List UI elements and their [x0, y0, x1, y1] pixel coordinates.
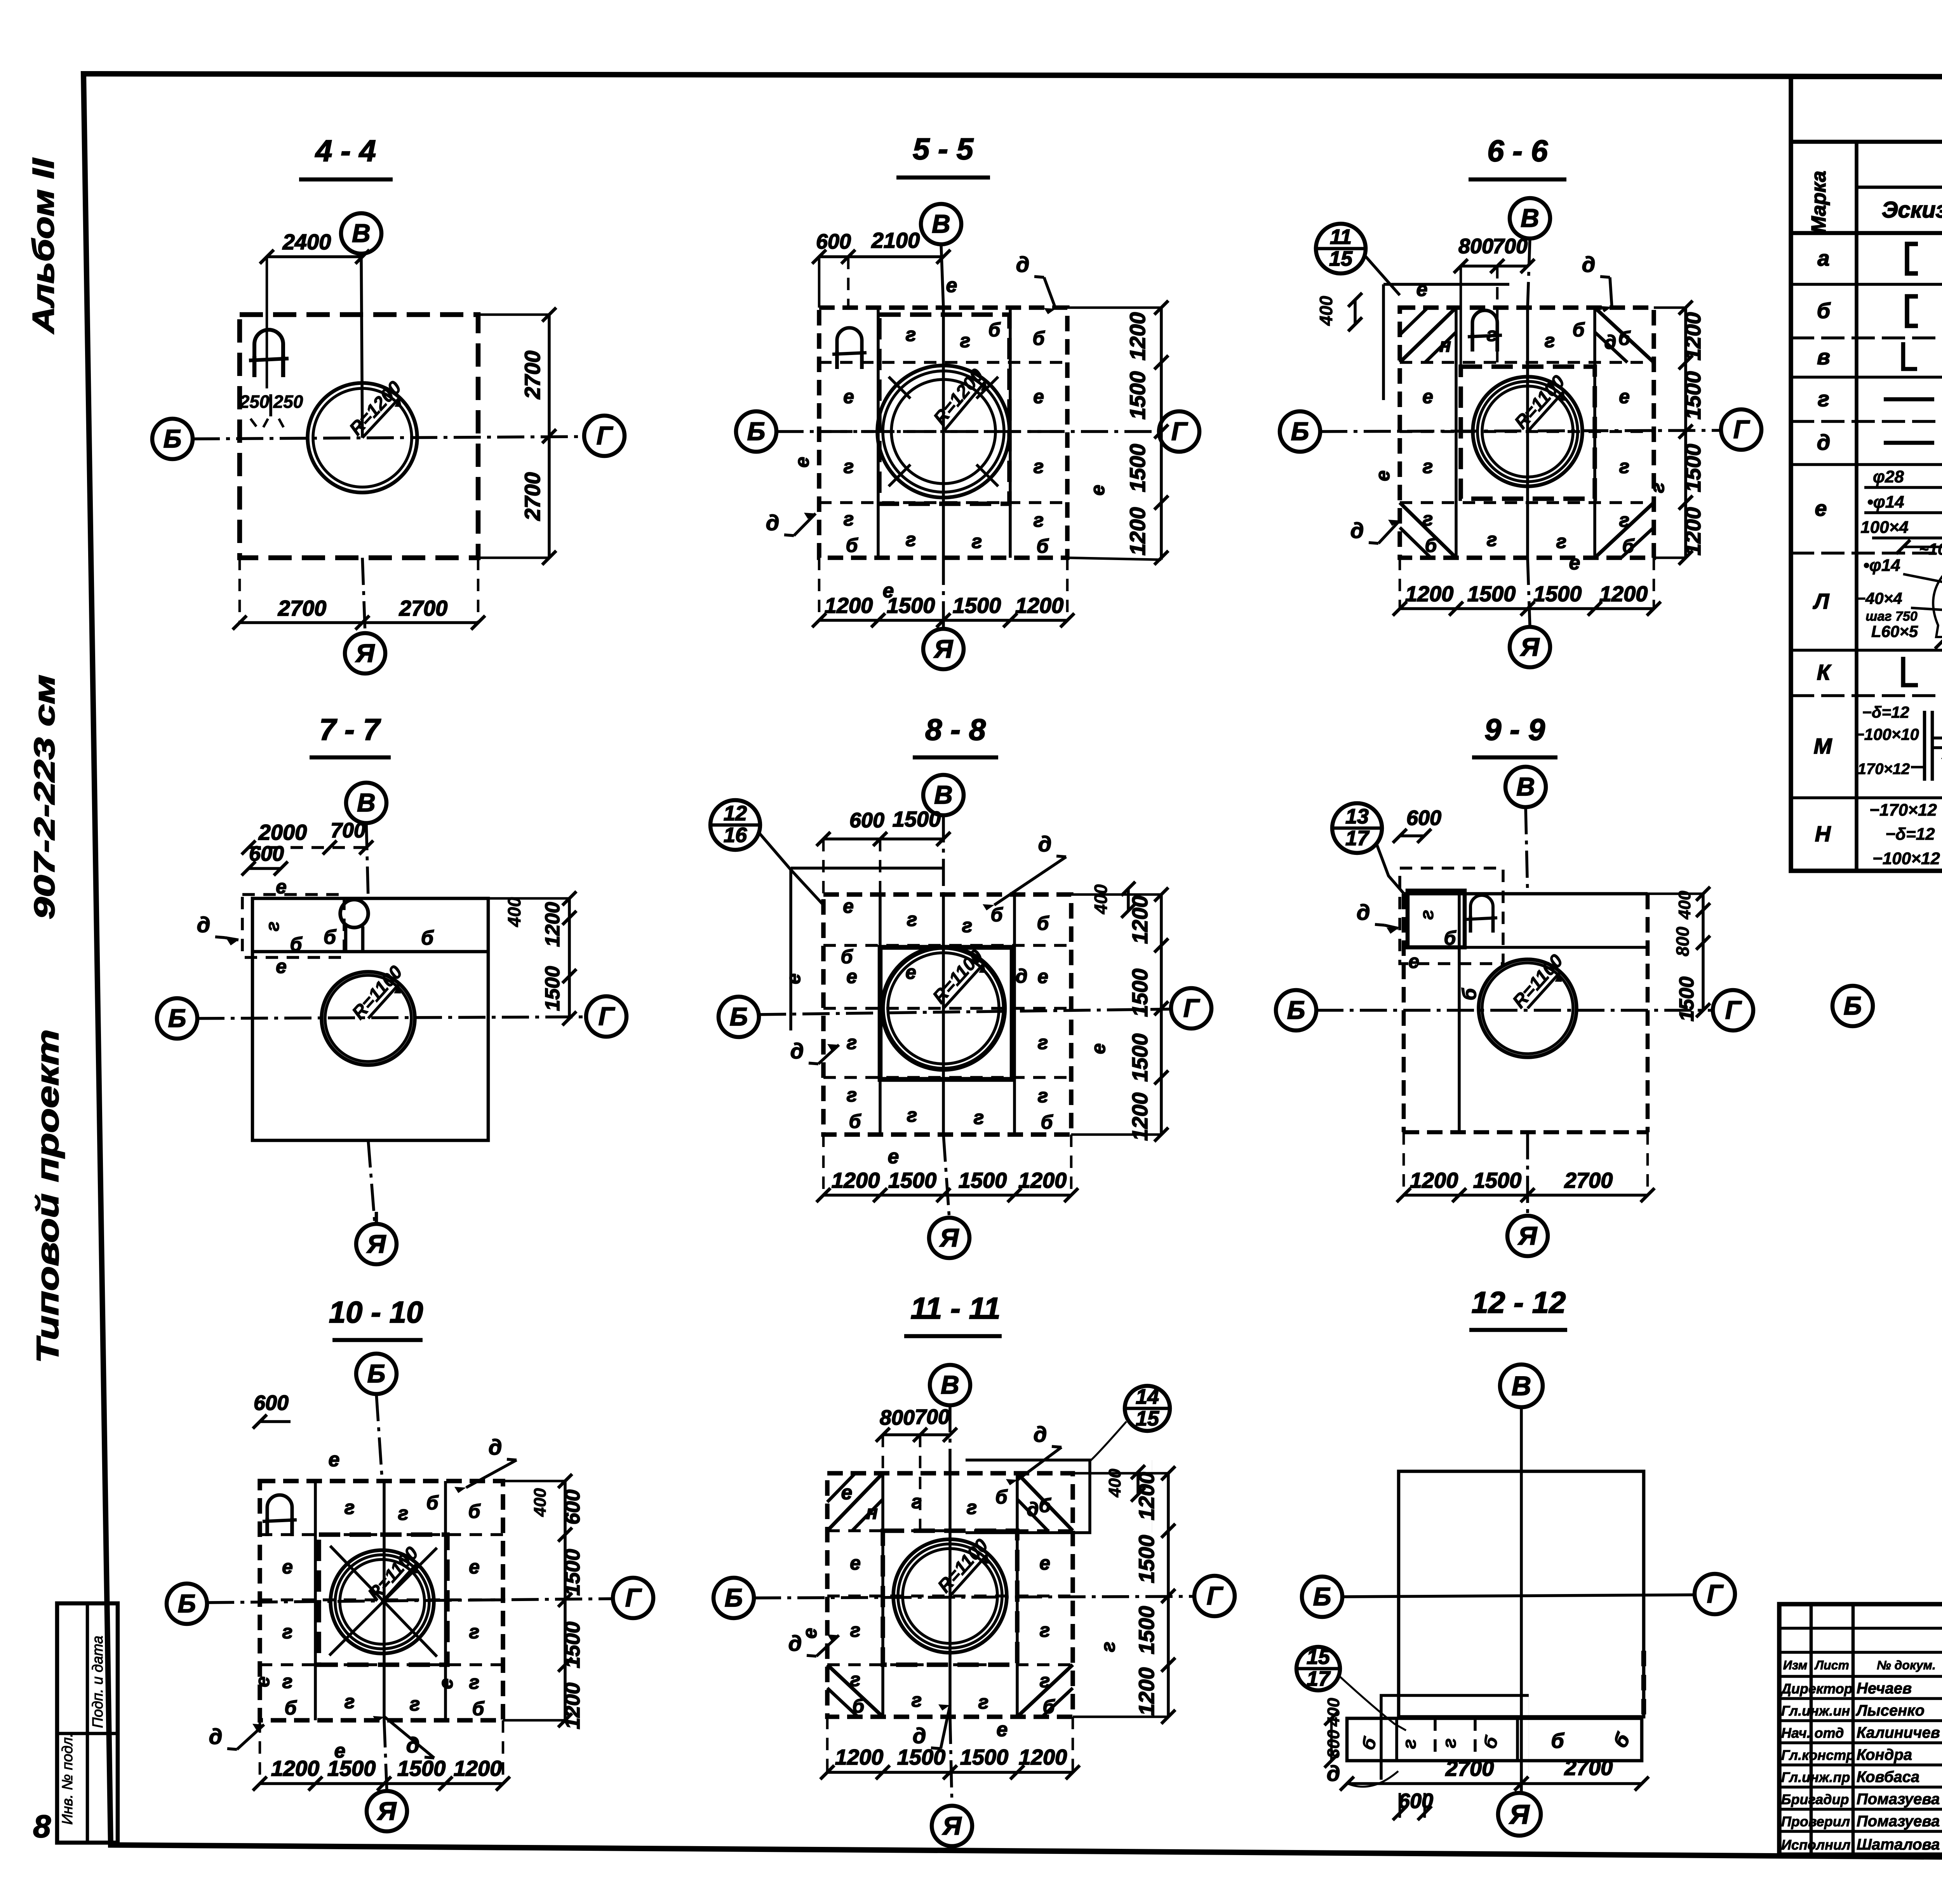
svg-text:2700: 2700 — [520, 472, 545, 521]
svg-text:2700: 2700 — [1564, 1755, 1613, 1780]
svg-text:−170×12: −170×12 — [1869, 801, 1937, 820]
svg-text:б: б — [285, 1697, 298, 1719]
svg-text:г: г — [978, 1691, 989, 1713]
svg-text:В: В — [934, 780, 953, 809]
svg-text:е: е — [1416, 278, 1428, 301]
svg-text:2700: 2700 — [520, 351, 545, 400]
svg-text:250: 250 — [273, 392, 303, 412]
svg-text:г: г — [1619, 509, 1630, 531]
svg-text:г: г — [1619, 456, 1630, 477]
svg-text:8: 8 — [33, 1809, 51, 1844]
svg-text:1200: 1200 — [561, 1683, 584, 1729]
svg-text:1200: 1200 — [1019, 1745, 1067, 1769]
svg-text:Я: Я — [933, 634, 954, 663]
svg-text:600: 600 — [849, 809, 884, 832]
svg-text:700: 700 — [915, 1405, 950, 1429]
svg-text:1500: 1500 — [561, 1622, 584, 1668]
svg-text:400: 400 — [1091, 884, 1111, 914]
svg-text:М: М — [1814, 734, 1832, 758]
svg-text:15: 15 — [1307, 1645, 1330, 1669]
svg-text:φ28: φ28 — [1873, 467, 1904, 486]
svg-text:−δ=12: −δ=12 — [1885, 825, 1935, 844]
svg-text:700: 700 — [1493, 235, 1528, 258]
svg-text:600: 600 — [1406, 806, 1441, 830]
svg-text:е: е — [1037, 966, 1048, 987]
svg-text:г: г — [345, 1691, 355, 1713]
svg-text:Я: Я — [1520, 632, 1540, 661]
svg-text:е: е — [1372, 470, 1394, 481]
svg-text:1200: 1200 — [271, 1756, 320, 1780]
svg-text:г: г — [1034, 456, 1044, 477]
svg-text:г: г — [906, 324, 916, 345]
svg-text:г: г — [1038, 1032, 1048, 1053]
svg-text:Г: Г — [1207, 1581, 1223, 1610]
svg-text:Н: Н — [1815, 821, 1831, 846]
svg-text:б: б — [1033, 327, 1046, 349]
svg-text:−100×10: −100×10 — [1855, 725, 1919, 743]
svg-text:400: 400 — [504, 897, 524, 927]
svg-text:17: 17 — [1345, 827, 1370, 850]
svg-text:Нач. отд: Нач. отд — [1781, 1725, 1844, 1741]
svg-text:г: г — [398, 1502, 409, 1524]
svg-text:1500: 1500 — [959, 1168, 1007, 1192]
svg-text:400: 400 — [1316, 296, 1336, 326]
svg-text:б: б — [1041, 1111, 1054, 1133]
svg-text:б: б — [1573, 319, 1585, 341]
svg-text:15: 15 — [1329, 247, 1353, 270]
svg-text:г: г — [469, 1671, 480, 1693]
svg-text:100×4: 100×4 — [1860, 518, 1909, 537]
svg-text:е: е — [843, 386, 854, 407]
svg-text:г: г — [1399, 1739, 1420, 1749]
svg-text:Лысенко: Лысенко — [1855, 1702, 1925, 1719]
svg-text:г: г — [906, 529, 916, 550]
svg-text:н: н — [866, 1502, 878, 1523]
svg-text:е: е — [329, 1448, 340, 1471]
svg-text:Лист: Лист — [1814, 1658, 1849, 1672]
svg-text:д: д — [1027, 1498, 1039, 1520]
svg-text:б: б — [1037, 912, 1050, 934]
svg-text:Б: Б — [1844, 991, 1862, 1020]
svg-text:г: г — [972, 531, 982, 552]
svg-text:г: г — [912, 1491, 922, 1512]
svg-text:е: е — [252, 1676, 273, 1687]
svg-text:е: е — [469, 1556, 480, 1578]
svg-text:L60×5: L60×5 — [1871, 622, 1918, 640]
svg-text:Г: Г — [1725, 996, 1742, 1024]
svg-text:г: г — [960, 330, 971, 352]
svg-text:Я: Я — [942, 1811, 962, 1840]
svg-text:д: д — [1817, 430, 1831, 454]
svg-text:1200: 1200 — [825, 593, 873, 618]
svg-text:К: К — [1817, 660, 1832, 684]
svg-text:1200: 1200 — [1128, 1093, 1152, 1141]
svg-text:Подп. и дата: Подп. и дата — [90, 1636, 106, 1728]
svg-text:г: г — [282, 1671, 293, 1692]
svg-text:б: б — [1444, 927, 1457, 949]
svg-text:Б: Б — [1287, 996, 1305, 1024]
svg-text:В: В — [932, 209, 950, 238]
svg-text:д: д — [913, 1723, 926, 1748]
svg-text:Я: Я — [366, 1229, 386, 1258]
svg-text:д: д — [209, 1724, 223, 1749]
svg-text:д: д — [1357, 900, 1370, 924]
svg-text:б: б — [1039, 1495, 1052, 1516]
svg-text:Марка: Марка — [1808, 171, 1830, 233]
svg-text:д: д — [489, 1435, 502, 1459]
svg-text:Бригадир: Бригадир — [1781, 1791, 1849, 1807]
svg-text:250: 250 — [239, 392, 270, 412]
svg-text:Ковбаса: Ковбаса — [1857, 1768, 1919, 1786]
svg-text:е: е — [888, 1145, 899, 1168]
svg-text:Помазуева: Помазуева — [1857, 1813, 1940, 1830]
svg-text:е: е — [783, 973, 804, 984]
svg-text:Шаталова: Шаталова — [1857, 1836, 1940, 1853]
svg-text:1200: 1200 — [1134, 1472, 1159, 1521]
svg-text:г: г — [844, 508, 854, 530]
svg-text:Б: Б — [164, 424, 182, 453]
svg-text:−100×12: −100×12 — [1872, 849, 1940, 868]
svg-text:Б: Б — [1313, 1582, 1331, 1611]
svg-text:г: г — [907, 1104, 917, 1126]
svg-text:9 - 9: 9 - 9 — [1484, 712, 1545, 747]
svg-text:б: б — [995, 1486, 1008, 1508]
svg-text:г: г — [1040, 1670, 1050, 1692]
svg-text:г: г — [962, 915, 973, 936]
svg-text:б: б — [1618, 327, 1631, 349]
svg-text:б: б — [849, 1110, 862, 1132]
svg-text:д: д — [1350, 518, 1364, 543]
svg-text:г: г — [345, 1497, 355, 1518]
svg-text:е: е — [843, 895, 854, 917]
svg-text:12 - 12: 12 - 12 — [1472, 1285, 1566, 1319]
svg-text:д: д — [1604, 331, 1617, 353]
svg-text:1200: 1200 — [1018, 1168, 1067, 1192]
svg-text:5 - 5: 5 - 5 — [913, 132, 974, 166]
svg-text:14: 14 — [1136, 1385, 1159, 1408]
svg-text:−δ=12: −δ=12 — [1862, 703, 1909, 721]
svg-text:г: г — [1040, 1619, 1050, 1641]
svg-text:2700: 2700 — [399, 596, 448, 620]
svg-text:е: е — [841, 1481, 853, 1504]
svg-text:г: г — [263, 921, 283, 931]
svg-text:б: б — [853, 1695, 865, 1717]
svg-text:д: д — [790, 1039, 804, 1063]
svg-text:15: 15 — [1136, 1407, 1159, 1430]
svg-text:е: е — [1087, 485, 1108, 496]
svg-text:1200: 1200 — [1125, 312, 1150, 361]
svg-text:е: е — [850, 1552, 861, 1574]
svg-text:Калиничев: Калиничев — [1857, 1724, 1940, 1741]
svg-text:Б: Б — [747, 417, 766, 446]
svg-text:1500: 1500 — [887, 593, 935, 618]
svg-text:б: б — [421, 927, 434, 949]
svg-text:н: н — [1439, 334, 1451, 356]
svg-text:б: б — [1817, 298, 1831, 323]
svg-text:№ докум.: № докум. — [1877, 1658, 1936, 1672]
svg-text:1500: 1500 — [888, 1168, 937, 1192]
svg-text:1500: 1500 — [1134, 1535, 1159, 1584]
svg-text:11: 11 — [1330, 225, 1352, 249]
svg-text:1500: 1500 — [1128, 969, 1152, 1017]
svg-text:1200: 1200 — [1681, 507, 1705, 556]
svg-text:1500: 1500 — [1473, 1168, 1522, 1192]
svg-text:2700: 2700 — [1445, 1756, 1494, 1780]
svg-text:Г: Г — [1707, 1579, 1724, 1608]
svg-text:г: г — [844, 456, 854, 477]
svg-text:б: б — [841, 946, 854, 968]
svg-text:а: а — [1817, 246, 1829, 270]
svg-text:е: е — [905, 961, 916, 983]
svg-text:800: 800 — [1672, 926, 1693, 956]
svg-text:в: в — [1817, 345, 1830, 369]
svg-text:е: е — [946, 274, 957, 297]
svg-text:б: б — [324, 926, 337, 949]
svg-text:1500: 1500 — [1676, 976, 1698, 1022]
svg-text:г: г — [1818, 386, 1829, 411]
svg-text:Кондра: Кондра — [1857, 1746, 1912, 1763]
svg-text:б: б — [846, 534, 859, 556]
svg-text:е: е — [1033, 386, 1044, 407]
svg-text:Б: Б — [730, 1002, 748, 1031]
svg-text:Б: Б — [168, 1004, 186, 1032]
svg-text:г: г — [974, 1107, 984, 1128]
svg-text:4 - 4: 4 - 4 — [315, 134, 376, 168]
svg-text:е: е — [846, 966, 857, 987]
svg-text:2100: 2100 — [871, 228, 920, 252]
svg-text:1500: 1500 — [953, 593, 1001, 618]
svg-text:−40×4: −40×4 — [1856, 589, 1902, 607]
svg-text:170×12: 170×12 — [1858, 761, 1910, 778]
svg-text:Проверил: Проверил — [1781, 1813, 1850, 1829]
svg-text:д: д — [1016, 965, 1028, 987]
svg-text:г: г — [282, 1621, 293, 1643]
svg-text:Инв. № подл.: Инв. № подл. — [59, 1733, 76, 1825]
svg-text:б: б — [1043, 1696, 1056, 1718]
svg-text:В: В — [941, 1370, 959, 1399]
svg-text:Б: Б — [178, 1589, 196, 1618]
svg-text:г: г — [850, 1669, 861, 1690]
svg-text:е: е — [997, 1718, 1008, 1741]
svg-text:1200: 1200 — [1128, 896, 1152, 944]
svg-text:б: б — [1425, 534, 1438, 556]
svg-text:Г: Г — [625, 1583, 642, 1612]
svg-text:е: е — [799, 1628, 821, 1639]
svg-text:7 - 7: 7 - 7 — [319, 712, 381, 747]
svg-text:Гл.констр: Гл.констр — [1781, 1747, 1855, 1763]
svg-text:6 - 6: 6 - 6 — [1487, 134, 1548, 168]
svg-text:г: г — [1545, 330, 1555, 352]
svg-text:е: е — [1088, 1043, 1109, 1054]
svg-text:Г: Г — [1733, 415, 1750, 444]
svg-text:700: 700 — [331, 819, 365, 842]
svg-text:е: е — [1422, 386, 1433, 407]
svg-text:1500: 1500 — [1134, 1606, 1159, 1655]
svg-text:б: б — [1037, 535, 1049, 557]
svg-text:8 - 8: 8 - 8 — [925, 712, 986, 747]
svg-text:г: г — [1556, 531, 1567, 552]
svg-text:е: е — [791, 457, 813, 468]
svg-text:13: 13 — [1345, 805, 1369, 828]
svg-text:г: г — [1423, 508, 1433, 530]
svg-text:г: г — [1417, 910, 1437, 920]
svg-text:1200: 1200 — [832, 1168, 880, 1192]
svg-text:г: г — [1487, 529, 1497, 550]
svg-text:Гл.инж.пр: Гл.инж.пр — [1781, 1769, 1850, 1785]
svg-text:д: д — [1327, 1761, 1340, 1786]
svg-text:1200: 1200 — [1015, 593, 1064, 618]
svg-text:400: 400 — [531, 1488, 550, 1517]
svg-text:600: 600 — [254, 1391, 289, 1415]
svg-text:1500: 1500 — [1125, 371, 1150, 420]
svg-text:г: г — [1423, 456, 1433, 477]
svg-text:2000: 2000 — [258, 820, 307, 844]
svg-text:Исполнил: Исполнил — [1781, 1837, 1850, 1853]
svg-text:Б: Б — [1291, 417, 1309, 446]
svg-text:д: д — [1016, 252, 1030, 277]
svg-text:г: г — [912, 1689, 922, 1711]
svg-text:Помазуева: Помазуева — [1857, 1791, 1940, 1808]
svg-text:1200: 1200 — [1410, 1168, 1458, 1192]
svg-text:1500: 1500 — [960, 1745, 1009, 1769]
svg-text:г: г — [1097, 1642, 1119, 1652]
svg-text:г: г — [1034, 509, 1044, 531]
svg-text:800: 800 — [1324, 1730, 1343, 1758]
svg-text:Г: Г — [599, 1002, 615, 1030]
svg-text:е: е — [1039, 1552, 1050, 1574]
svg-text:е: е — [1408, 950, 1419, 972]
svg-text:Альбом II: Альбом II — [26, 158, 60, 334]
svg-text:Б: Б — [367, 1359, 386, 1388]
svg-text:е: е — [435, 1678, 457, 1689]
svg-text:1500: 1500 — [893, 807, 941, 831]
svg-text:800: 800 — [1458, 235, 1493, 258]
svg-text:шаг 750: шаг 750 — [1865, 609, 1918, 624]
svg-text:~1000: ~1000 — [1919, 540, 1942, 558]
svg-text:Я: Я — [355, 639, 375, 667]
svg-text:Я: Я — [1517, 1221, 1538, 1250]
svg-text:д: д — [197, 912, 211, 937]
svg-text:1500: 1500 — [1128, 1034, 1152, 1082]
svg-text:17: 17 — [1307, 1667, 1331, 1690]
svg-text:б: б — [1622, 535, 1635, 557]
svg-text:11 - 11: 11 - 11 — [910, 1291, 1000, 1325]
svg-text:Б: Б — [725, 1583, 743, 1612]
svg-text:Изм: Изм — [1783, 1658, 1808, 1672]
svg-text:г: г — [1646, 483, 1668, 493]
svg-text:1500: 1500 — [397, 1756, 446, 1780]
svg-text:1200: 1200 — [1681, 312, 1705, 361]
svg-text:400: 400 — [1675, 891, 1694, 920]
svg-text:б: б — [991, 904, 1004, 926]
svg-text:б: б — [988, 319, 1001, 341]
svg-text:Директор: Директор — [1780, 1681, 1853, 1697]
svg-text:2700: 2700 — [1564, 1168, 1613, 1192]
svg-text:е: е — [1815, 496, 1827, 520]
svg-text:1200: 1200 — [454, 1756, 502, 1780]
svg-text:12: 12 — [724, 802, 747, 825]
svg-text:1500: 1500 — [1125, 444, 1150, 493]
svg-text:г: г — [907, 908, 917, 930]
svg-text:1200: 1200 — [1599, 581, 1648, 606]
svg-text:г: г — [1038, 1085, 1048, 1107]
svg-text:1200: 1200 — [541, 902, 564, 947]
svg-text:г: г — [469, 1621, 480, 1643]
svg-text:е: е — [1619, 386, 1630, 407]
svg-text:1200: 1200 — [1405, 581, 1454, 606]
svg-text:д: д — [1038, 832, 1052, 856]
svg-text:е: е — [276, 955, 287, 977]
svg-text:г: г — [847, 1032, 857, 1053]
svg-text:г: г — [1487, 324, 1497, 345]
svg-text:1500: 1500 — [1467, 581, 1516, 606]
svg-text:907-2-223 см: 907-2-223 см — [28, 675, 61, 919]
svg-text:1500: 1500 — [327, 1756, 376, 1780]
svg-text:Я: Я — [377, 1796, 397, 1825]
svg-text:Я: Я — [1509, 1799, 1530, 1829]
svg-text:1500: 1500 — [1681, 371, 1705, 420]
svg-text:Гл.инж.ин: Гл.инж.ин — [1781, 1703, 1850, 1719]
svg-text:600: 600 — [816, 230, 851, 253]
svg-text:1500: 1500 — [1681, 444, 1705, 493]
svg-text:Г: Г — [1171, 417, 1188, 446]
svg-text:600: 600 — [561, 1490, 584, 1525]
svg-text:2400: 2400 — [282, 230, 331, 254]
svg-text:В: В — [352, 219, 371, 247]
svg-text:г: г — [847, 1084, 857, 1106]
svg-text:2700: 2700 — [278, 596, 327, 620]
svg-text:г: г — [967, 1497, 977, 1518]
svg-text:Типовой проект: Типовой проект — [30, 1029, 65, 1363]
svg-text:д: д — [766, 510, 780, 535]
svg-text:•φ14: •φ14 — [1863, 556, 1900, 575]
svg-text:б: б — [1458, 987, 1480, 1000]
svg-text:Г: Г — [1183, 994, 1200, 1022]
svg-text:д: д — [1034, 1422, 1047, 1446]
svg-text:б: б — [426, 1492, 439, 1514]
svg-text:В: В — [1516, 772, 1535, 801]
svg-text:В: В — [357, 788, 376, 817]
svg-text:1200: 1200 — [835, 1745, 884, 1769]
svg-text:б: б — [472, 1698, 485, 1720]
svg-text:е: е — [282, 1556, 293, 1578]
svg-text:1500: 1500 — [561, 1549, 584, 1596]
svg-text:16: 16 — [724, 823, 747, 847]
svg-text:1500: 1500 — [897, 1745, 946, 1769]
svg-text:800: 800 — [880, 1406, 915, 1429]
svg-text:1200: 1200 — [1134, 1667, 1159, 1716]
svg-text:•φ14: •φ14 — [1867, 493, 1904, 512]
svg-text:1200: 1200 — [1125, 507, 1150, 556]
svg-text:е: е — [1569, 552, 1580, 574]
svg-text:д: д — [1582, 252, 1596, 277]
svg-text:б: б — [468, 1500, 481, 1522]
svg-text:Л: Л — [1813, 589, 1830, 613]
svg-text:б: б — [290, 933, 303, 955]
svg-text:б: б — [1551, 1729, 1564, 1753]
svg-text:Я: Я — [939, 1223, 959, 1252]
svg-text:г: г — [410, 1693, 420, 1715]
svg-text:1500: 1500 — [1533, 581, 1582, 606]
svg-text:д: д — [788, 1631, 802, 1655]
svg-text:Нечаев: Нечаев — [1857, 1680, 1912, 1697]
svg-text:10 - 10: 10 - 10 — [329, 1295, 423, 1329]
svg-text:1500: 1500 — [541, 966, 564, 1011]
svg-text:В: В — [1521, 204, 1539, 232]
svg-text:В: В — [1512, 1371, 1531, 1401]
svg-text:г: г — [1439, 1738, 1460, 1748]
svg-text:е: е — [276, 876, 287, 898]
